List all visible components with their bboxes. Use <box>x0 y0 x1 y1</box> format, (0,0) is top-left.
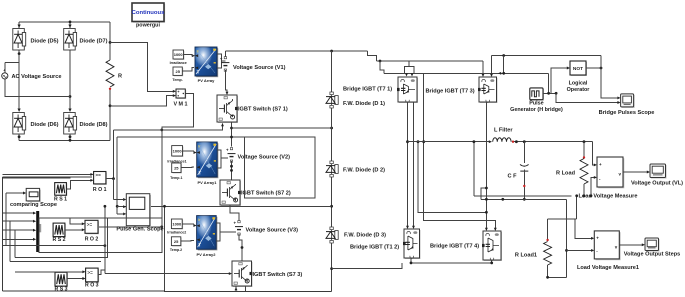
svg-text:Bridge IGBT (T7 4): Bridge IGBT (T7 4) <box>430 244 479 250</box>
Voltage Output (VL) scope block <box>650 164 667 179</box>
arrow RO1 in2 <box>90 179 93 182</box>
wire cluster bundle 1 <box>3 245 105 247</box>
resistor R <box>106 60 114 87</box>
DC source V1 symbol <box>220 57 230 72</box>
wire S7 3 bottom stub 2 <box>245 286 247 291</box>
constant Irradiance2 (1000) <box>171 219 183 230</box>
wire cluster bundle 2 <box>15 219 108 258</box>
wire bundle2 wrap to mux in3 <box>14 230 16 257</box>
junction RO1 output <box>112 177 115 180</box>
resistor R Load1 <box>544 242 552 266</box>
wire bundle1 wrap to mux in1 <box>5 193 7 246</box>
wire cluster top edge <box>3 176 92 178</box>
Pulse Gen. Scope block <box>126 194 151 227</box>
wire PV1 to V2 <box>221 157 228 159</box>
svg-text:+: + <box>599 162 602 167</box>
wire PV Array outputs <box>217 54 222 68</box>
arrow into T1 2 port2 <box>412 226 415 229</box>
arrow mux input 4 <box>33 238 36 241</box>
svg-text:T: T <box>199 170 202 175</box>
junction V2 column / FW wire <box>230 127 233 130</box>
svg-text:AC Voltage Source: AC Voltage Source <box>12 74 62 80</box>
arrow up into S7 1 bottom <box>221 123 224 126</box>
junction emitter bus left <box>410 262 413 265</box>
wire RO2 in1 <box>70 218 82 224</box>
diode D7 symbol <box>64 25 77 51</box>
arrow into T7 3 gate <box>482 74 485 77</box>
freewheel diode D2 <box>326 161 338 177</box>
repeating sequence RS3 <box>55 272 68 287</box>
wire R load1 top link <box>548 218 577 220</box>
arrow into comparing scope <box>23 192 26 195</box>
junction V2 bottom <box>230 165 233 168</box>
wire R load top <box>583 142 585 157</box>
junction R load top <box>583 140 586 143</box>
svg-text:C F: C F <box>507 174 517 180</box>
svg-text:R S 1: R S 1 <box>54 197 67 203</box>
svg-text:Voltage Output (VL): Voltage Output (VL) <box>631 181 683 187</box>
wire lower bridge emitter bus <box>411 258 492 263</box>
junction loop wire / V2 column <box>230 136 233 139</box>
freewheel diode D3 <box>326 227 338 243</box>
wire PGS input 1 <box>114 199 124 201</box>
voltage measurement VM1 <box>176 89 186 99</box>
IGBT switch S7 3 <box>232 261 253 287</box>
arrow PGS input 2 <box>123 205 126 208</box>
arrow RO3 in1 <box>82 270 85 273</box>
svg-text:IGBT Switch (S7 1): IGBT Switch (S7 1) <box>238 107 288 113</box>
svg-text:25: 25 <box>174 165 179 170</box>
resistor R Load <box>580 159 588 185</box>
wire gate bus to T7 4 port2 <box>424 73 496 230</box>
junction mid wire / bottom riser <box>163 205 166 208</box>
wire D7 top stub <box>69 22 71 28</box>
junction C F on bus2 <box>523 198 526 201</box>
svg-text:Continuous: Continuous <box>132 10 165 16</box>
svg-text:1000: 1000 <box>172 221 182 226</box>
constant Temp (25) <box>173 67 183 76</box>
wire S7 1 emitter to FW column <box>232 127 332 129</box>
svg-text:Diode (D6): Diode (D6) <box>31 122 59 128</box>
svg-text:1000: 1000 <box>174 52 184 57</box>
junction bus1 on AC bus <box>473 140 476 143</box>
junction riser / mid wire <box>116 205 119 208</box>
inductor L filter <box>493 138 511 142</box>
wire PGS input 2 <box>117 206 123 208</box>
svg-text:F.W. Diode (D 3): F.W. Diode (D 3) <box>344 233 386 239</box>
wire to LVM1 in2 <box>567 249 592 251</box>
logical operator NOT block <box>570 61 587 76</box>
wire gate bus y73 <box>384 72 549 74</box>
wire LVM to VL scope <box>623 171 647 173</box>
wire to VM1 plus input <box>110 42 174 91</box>
wire bus1 to LVM in2 <box>591 177 595 195</box>
junction VM1 route <box>160 129 163 132</box>
wire pulse gen output <box>543 92 556 94</box>
junction R bottom branch <box>109 104 112 107</box>
wire drop into T7 3 g <box>482 61 484 76</box>
svg-text:25: 25 <box>174 239 179 244</box>
arrow mux input 2 <box>33 220 36 223</box>
wire R column top <box>109 22 111 60</box>
wire V3 bottom to S7 3 <box>239 234 242 261</box>
wire staircase to gate bus <box>368 51 377 61</box>
arrow LVM1 in2 <box>591 249 594 252</box>
wire D6 bottom stub <box>18 134 20 140</box>
wire to VM1 minus input <box>110 96 174 106</box>
svg-text:Load Voltage Measure1: Load Voltage Measure1 <box>577 265 639 271</box>
wire riser upper <box>116 137 118 214</box>
diode D8 symbol <box>64 109 77 135</box>
freewheel diode D1 <box>326 92 338 108</box>
wire R column bottom <box>109 89 111 141</box>
svg-text:+: + <box>234 221 237 226</box>
wire cluster to S7 1 return <box>114 124 223 130</box>
arrow RO3 in2 <box>82 277 85 280</box>
wire riser to scope input1 <box>601 56 618 98</box>
wire RO3 output routing <box>98 270 105 274</box>
relational operator RO1 <box>94 172 107 185</box>
mux output tab <box>39 224 41 232</box>
arrow into T7 4 port1 <box>485 228 488 231</box>
junction D8 column / AC return <box>69 95 72 98</box>
constant Temp.2 (25) <box>171 237 181 247</box>
wire PV to V1 <box>222 60 226 62</box>
wire sense to LVM in1 <box>593 142 595 165</box>
svg-text:Operator: Operator <box>567 87 591 93</box>
wire RO2 output routing <box>98 226 162 228</box>
svg-text:R Load: R Load <box>556 171 576 177</box>
junction above S7 3 <box>241 246 244 249</box>
junction gate cross wire <box>502 54 505 57</box>
wire D5 top stub <box>18 22 20 28</box>
wire bottom bus of rectifier <box>19 139 110 141</box>
junction NOT output riser <box>600 67 603 70</box>
arrow RO2 in2 <box>82 228 85 231</box>
wire gate drive to S7 3 <box>105 273 229 275</box>
svg-text:L Filter: L Filter <box>494 128 513 134</box>
red marker after L filter <box>512 141 514 143</box>
wire 1000 to PV Array2 <box>182 223 194 225</box>
svg-text:25: 25 <box>175 69 180 74</box>
wire AC+ to D5/D6 midpoint <box>5 62 19 64</box>
junction pulse node 1 <box>547 92 550 95</box>
IGBT switch S7 2 <box>220 180 241 206</box>
PV Array2 block <box>197 216 218 251</box>
arrow into S7 3 gate <box>229 272 232 275</box>
red marker R load1 top <box>546 239 548 241</box>
wire V2 bottom to S7 2 <box>231 161 233 180</box>
wire 1000 to PV Array <box>184 55 195 56</box>
svg-text:Temp.: Temp. <box>172 78 182 82</box>
wire cluster bottom edge / bottom bus <box>3 290 332 293</box>
svg-text:Generator (H bridge): Generator (H bridge) <box>510 107 563 113</box>
junction T7 4 column <box>485 211 488 214</box>
svg-text:Diode (D5): Diode (D5) <box>31 39 59 45</box>
pulse generator block <box>530 88 544 101</box>
wire step to lower gate bus <box>380 61 384 73</box>
svg-text:>=: >= <box>87 270 93 275</box>
wire T7 1 emitter to T1 2 port1 <box>407 102 409 228</box>
junction bottom bus / D8 <box>69 139 72 142</box>
mux block <box>36 211 39 252</box>
arrow into S7 1 top <box>226 92 229 95</box>
arrow LVM in2 <box>594 176 597 179</box>
arrow scope in1 <box>617 96 620 99</box>
PV Array block <box>195 47 218 77</box>
svg-text:IGBT Switch (S7 3): IGBT Switch (S7 3) <box>253 272 303 278</box>
wire FW column seg1 <box>331 51 333 92</box>
wire bus1 riser to AC bus <box>473 142 475 196</box>
arrow PV1 in1 <box>194 151 197 154</box>
wire 25 to PV Array2 <box>181 240 194 243</box>
svg-text:V M 1: V M 1 <box>173 102 187 108</box>
arrow mux input 1 <box>33 212 36 215</box>
junction FW column at y128 <box>330 127 333 130</box>
junction LVM in2 on bus1 <box>590 194 593 197</box>
wire bundle3 wrap to mux in2 <box>9 221 11 261</box>
relational operator RO3 <box>86 268 100 283</box>
relational operator RO2 <box>85 220 99 234</box>
wire C F bottom segment <box>523 170 525 200</box>
wire load bus1 <box>474 195 572 197</box>
wire bottom return to emitter bus <box>332 263 402 269</box>
wire cluster bundle 3 <box>10 261 101 263</box>
junction S7 2 top <box>230 169 233 172</box>
junction R load on bus1 <box>583 194 586 197</box>
wire R load1 bottom <box>548 265 567 277</box>
junction bus1 right <box>575 194 578 197</box>
wire V1 plus rail to bridge <box>225 50 367 52</box>
wire mux input 1 <box>3 212 33 214</box>
wire cluster to loop rect <box>117 136 245 138</box>
constant Irradiance1 (1000) <box>172 146 184 157</box>
wire FW column seg2 <box>331 108 333 161</box>
arrow into T7 1 port1 <box>405 73 408 76</box>
svg-text:Voltage Output Steps: Voltage Output Steps <box>624 252 680 258</box>
svg-text:Bridge IGBT (T7 3): Bridge IGBT (T7 3) <box>426 89 475 95</box>
DC source V2 symbol <box>226 148 236 163</box>
wire VM1 output to cluster <box>114 94 194 130</box>
wire R load bottom <box>583 184 585 196</box>
arrow PV2 in1 <box>193 224 196 227</box>
svg-text:Diode (D8): Diode (D8) <box>80 122 108 128</box>
Voltage Output Steps scope block <box>645 238 660 252</box>
junction R load1 bottom <box>546 276 549 279</box>
wire RO1 in1 <box>3 173 91 175</box>
wire RS2 to RO2 <box>65 229 82 231</box>
svg-text:Diode (D7): Diode (D7) <box>80 39 108 45</box>
wire top signal to scope riser <box>492 55 602 57</box>
wire riser RO1 to S7 1 <box>113 130 115 179</box>
bridge IGBT T1 2 block <box>403 229 421 259</box>
wire load bus2 <box>481 198 567 200</box>
junction LVM1 in2 <box>565 249 568 252</box>
constant Temp.1 (25) <box>172 163 182 173</box>
svg-text:+: + <box>226 148 229 153</box>
arrow into VL scope <box>647 171 650 174</box>
junction bus2 <box>501 198 504 201</box>
svg-text:R O 2: R O 2 <box>85 237 99 243</box>
junction RO2 output on riser <box>160 225 163 228</box>
svg-text:R S 3: R S 3 <box>55 287 68 293</box>
junction FW column bottom wire <box>330 267 333 270</box>
wire PV2 to V3 <box>220 231 236 233</box>
wire AC bus to L filter <box>408 141 490 143</box>
wire S7 3 to bottom bus <box>235 286 237 291</box>
wire RS1 to RO1 <box>66 180 90 189</box>
junction bundle1 riser <box>104 244 107 247</box>
junction T7 4 column on bus2 <box>485 198 488 201</box>
wire T7 1 to T1 2 port2 <box>413 102 415 228</box>
PV Array1 block <box>197 142 219 178</box>
arrow into T7 3 port2 <box>490 74 493 77</box>
red marker R load top <box>583 156 585 158</box>
junction AC bus 2 <box>417 140 420 143</box>
AC voltage source symbol <box>2 67 8 79</box>
junction T7 1 emitter on AC bus <box>406 140 409 143</box>
wire C F top segment <box>523 142 525 163</box>
wire AC- to D7/D8 midpoint <box>5 79 70 97</box>
wire NOT output <box>586 67 601 69</box>
svg-text:R O 3: R O 3 <box>85 283 99 289</box>
DC source V3 symbol <box>234 221 244 236</box>
wire V1 top <box>224 51 226 59</box>
junction emitter bus right <box>490 262 493 265</box>
wire R load1 top segment <box>547 219 549 239</box>
arrow into PV Array in1 <box>192 54 195 57</box>
arrow PGS input 3 <box>123 212 126 215</box>
junction bus2 step on T7 4 feed <box>485 187 488 190</box>
svg-text:>=: >= <box>95 173 101 178</box>
wire riser mid to bottom bus <box>164 206 166 291</box>
svg-text:Bridge IGBT (T1 2): Bridge IGBT (T1 2) <box>350 245 399 251</box>
svg-text:R Load1: R Load1 <box>515 253 537 259</box>
wire mux input 3 <box>3 229 33 231</box>
svg-text:IGBT Switch (S7 2): IGBT Switch (S7 2) <box>241 191 291 197</box>
svg-text:NOT: NOT <box>573 66 583 72</box>
powergui block <box>132 3 165 23</box>
wire top bus of rectifier <box>19 21 110 23</box>
wire mux input 2 <box>3 220 33 222</box>
junction on gate bus y73 <box>502 72 505 75</box>
svg-text:T: T <box>198 243 201 248</box>
svg-text:R O 1: R O 1 <box>93 187 107 193</box>
wire loop above T7 1 <box>405 66 415 73</box>
wire pulse to scope input2 <box>556 93 617 102</box>
wire gate bus down to pulse node <box>548 73 550 93</box>
wire cluster vertical from VM1 node <box>161 130 163 219</box>
wire D7-D8 column <box>69 50 71 109</box>
wire LVM1 to steps scope <box>619 244 642 246</box>
svg-text:1000: 1000 <box>173 148 183 153</box>
svg-text:Temp.2: Temp.2 <box>170 248 182 252</box>
svg-text:Voltage Source (V1): Voltage Source (V1) <box>233 65 286 71</box>
diode D6 symbol <box>13 109 26 135</box>
bridge IGBT T7 4 block <box>482 231 502 261</box>
svg-text:PV Array2: PV Array2 <box>197 252 217 257</box>
arrow into T7 4 port2 <box>494 228 497 231</box>
arrow RO1 in1 <box>90 173 93 176</box>
wire bus1 down to R load1 feed <box>576 196 578 219</box>
svg-text:T: T <box>197 69 200 74</box>
wire PV2 outputs <box>216 223 220 241</box>
wire gate bus y61 <box>377 60 483 62</box>
junction pulse node 2 <box>555 92 558 95</box>
arrow RO2 in1 <box>82 222 85 225</box>
arrow scope in2 <box>617 101 620 104</box>
arrow LVM in1 <box>594 163 597 166</box>
arrow into VM1 + <box>173 90 176 93</box>
arrow into T7 3 m port <box>498 72 501 75</box>
constant Irradiance (1000) <box>173 50 184 60</box>
wire 25 to PV Array <box>182 68 194 72</box>
wire S7 2 to V3 <box>230 205 239 222</box>
svg-text:+: + <box>596 235 599 240</box>
wire drop into T7 3 C <box>491 56 493 77</box>
wire D5-D6 column <box>18 50 20 109</box>
wire T7 1 loop feed <box>408 61 410 66</box>
wire RS3 to RO3 <box>67 278 83 280</box>
junction after L filter <box>515 140 518 143</box>
svg-text:Irradiance2: Irradiance2 <box>167 231 186 235</box>
junction FW column mid wire <box>330 205 333 208</box>
wire RO3 in1 <box>15 271 83 273</box>
comparing Scope block <box>26 188 41 202</box>
wire cluster to FW column <box>117 205 331 207</box>
svg-text:Voltage Source (V3): Voltage Source (V3) <box>246 228 299 234</box>
arrow LVM1 in1 <box>591 237 594 240</box>
Load Voltage Measure block <box>597 157 624 188</box>
svg-text:Pulse Gen. Scope: Pulse Gen. Scope <box>116 227 163 233</box>
svg-text:F.W. Diode (D 1): F.W. Diode (D 1) <box>343 101 385 107</box>
wire S7 1 to V2 column <box>231 122 233 147</box>
IGBT switch S7 1 <box>217 95 238 123</box>
wire D8 bottom stub <box>69 134 71 140</box>
wire AC+ vertical <box>4 63 6 73</box>
capacitor C F <box>520 165 529 172</box>
arrow into steps scope <box>642 243 645 246</box>
svg-text:R: R <box>118 74 122 80</box>
svg-text:>=: >= <box>87 222 93 227</box>
arrow into NOT <box>567 67 570 70</box>
wire mux input 4 <box>3 238 33 240</box>
wire FW column seg3 <box>331 177 333 227</box>
wire V1 to IGBT S7 1 <box>225 70 227 94</box>
Load Voltage Measure1 block <box>594 231 620 260</box>
svg-text:Logical: Logical <box>569 81 588 87</box>
svg-text:Voltage Source (V2): Voltage Source (V2) <box>238 155 291 161</box>
repeating sequence RS1 <box>55 183 68 197</box>
arrow into L filter <box>489 140 492 143</box>
wire bus2 down right column <box>566 199 568 277</box>
junction R column branch <box>109 41 112 44</box>
wire loop around S7 2 output <box>245 137 315 198</box>
wire PV1 outputs <box>217 150 221 168</box>
wire 25 to PV Array1 <box>181 166 194 169</box>
arrow PGS input 1 <box>123 198 126 201</box>
wire FW column seg4 <box>331 243 333 291</box>
wire cluster top feed <box>3 177 71 179</box>
wire pulse to NOT input <box>551 68 567 93</box>
svg-text:Irradiance: Irradiance <box>170 61 187 65</box>
wire bus2 left step <box>481 188 487 199</box>
arrow mux input 3 <box>33 229 36 232</box>
bridge IGBT T7 3 block <box>478 77 498 103</box>
junction C F top <box>523 140 526 143</box>
repeating sequence RS2 <box>53 223 66 237</box>
wire RO1 to PGS input <box>113 179 115 200</box>
